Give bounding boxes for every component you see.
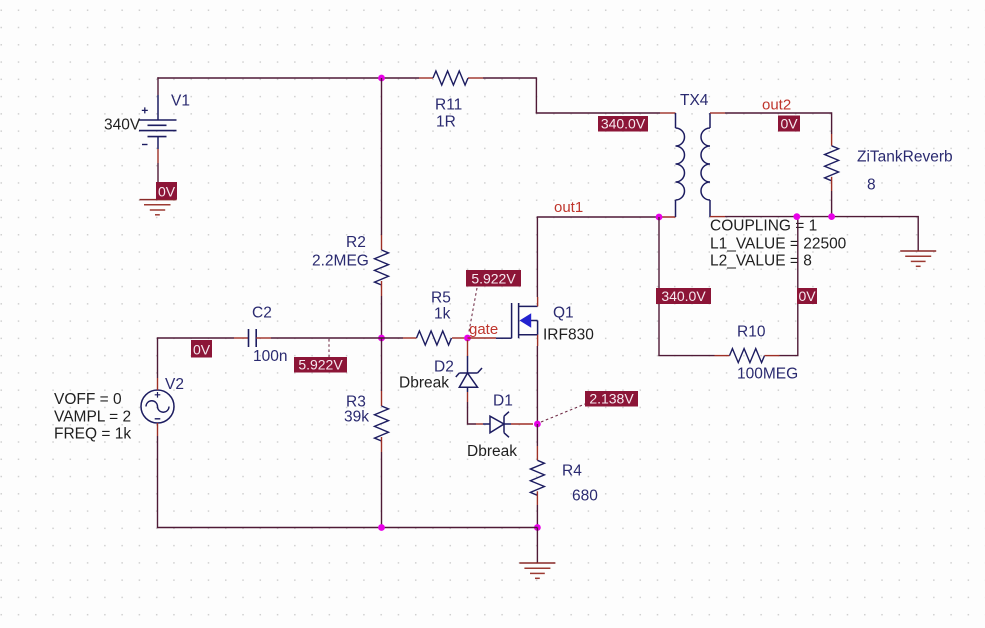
svg-text:0V: 0V: [798, 288, 816, 304]
pin stub Q1 source: [537, 335, 539, 346]
node gate junction: [464, 335, 471, 342]
node A junction (top, R2 top): [378, 75, 385, 82]
bias label 340.0V (R11/TX wire): [598, 116, 648, 132]
wire V2 bottom to bottom net: [157, 436, 159, 528]
dashed leader to 5.922V gate: [469, 288, 478, 334]
resistor R2: [375, 250, 389, 285]
pin stub R5 left: [403, 337, 417, 339]
svg-text:IRF830: IRF830: [543, 327, 594, 344]
pin stub D1 left: [476, 423, 483, 425]
wire V1 to ground: [157, 163, 159, 200]
pin stub TX4 primary top: [660, 112, 676, 114]
wire V2 top to corner: [157, 337, 159, 378]
node junction out1/TX: [656, 214, 663, 221]
wire C2 to mid node: [271, 337, 382, 339]
pin stub Q1 drain: [537, 297, 539, 306]
pin stub R11 right: [468, 77, 483, 79]
svg-text:2.2MEG: 2.2MEG: [312, 253, 369, 270]
svg-text:Dbreak: Dbreak: [467, 443, 517, 460]
wire R10 right up: [780, 217, 798, 356]
bias label 0V (V1 ground): [156, 182, 177, 200]
transistor Q1: [496, 303, 594, 344]
svg-text:D2: D2: [434, 359, 454, 376]
svg-text:Q1: Q1: [553, 305, 574, 322]
svg-text:1R: 1R: [436, 114, 456, 131]
svg-text:L2_VALUE = 8: L2_VALUE = 8: [710, 253, 812, 270]
pin stub V2 bottom: [157, 423, 159, 436]
diode D1: [467, 393, 517, 461]
voltage source V1 (battery): [104, 93, 190, 150]
pin stub R4 bottom: [536, 491, 538, 505]
pin stub R2 top: [381, 235, 383, 250]
svg-text:0V: 0V: [780, 116, 798, 132]
wire mid node down to R3: [381, 338, 383, 391]
wire out1 horizontal: [537, 216, 659, 218]
wire out2 horizontal: [725, 112, 832, 114]
transformer TX4: [676, 92, 711, 217]
svg-text:FREQ = 1k: FREQ = 1k: [54, 426, 131, 443]
pin stub R3 bottom: [381, 437, 383, 452]
node mid junction (C2/R2/R3/R5): [378, 335, 385, 342]
svg-text:340.0V: 340.0V: [601, 116, 646, 132]
pin stub R11 left: [419, 77, 433, 79]
pin stub RT bottom: [831, 177, 833, 191]
svg-text:100n: 100n: [253, 348, 287, 365]
pin stub R5 right: [452, 337, 468, 339]
resistor R3: [375, 406, 389, 441]
ground (R4): [519, 563, 555, 578]
wire top-left horizontal V1 to node: [157, 77, 381, 79]
wire mid node to R5: [382, 337, 404, 339]
voltage source V2 (sine): [141, 376, 184, 423]
svg-text:680: 680: [572, 488, 598, 505]
wire bottom net horizontal: [158, 527, 538, 529]
svg-text:L1_VALUE = 22500: L1_VALUE = 22500: [710, 236, 847, 253]
wire bottom-right net to ground: [725, 216, 918, 251]
wire Q1 drain up to out1: [536, 217, 538, 297]
node junction bottom (R4): [534, 524, 541, 531]
node junction (0V net / R10): [793, 213, 800, 220]
wire R2 top vertical: [381, 78, 383, 235]
bias label 340.0V (R10 left): [656, 288, 711, 304]
svg-text:0V: 0V: [193, 342, 211, 358]
wire corner down: [535, 77, 537, 113]
pin stub D1 right: [511, 423, 533, 425]
svg-text:39k: 39k: [344, 409, 369, 426]
wire R10 row left: [658, 355, 714, 357]
svg-text:D1: D1: [493, 393, 513, 410]
svg-text:2.138V: 2.138V: [589, 391, 634, 407]
wire R4 bottom to bottom net: [536, 505, 538, 528]
resistor ZiTankReverb: [825, 146, 839, 181]
resistor R10: [730, 349, 765, 363]
diode D2: [399, 356, 482, 392]
svg-text:340.0V: 340.0V: [661, 288, 706, 304]
svg-text:C2: C2: [252, 305, 272, 322]
dashed leader to 5.922V: [328, 339, 330, 357]
svg-text:V2: V2: [165, 376, 184, 393]
node junction bottom (R3): [378, 524, 385, 531]
wire to ground (R4): [536, 528, 538, 564]
svg-text:5.922V: 5.922V: [298, 357, 343, 373]
ground (TX secondary): [900, 251, 936, 266]
pin stub TX4 secondary bottom: [710, 216, 725, 218]
svg-text:COUPLING = 1: COUPLING = 1: [710, 218, 817, 235]
svg-text:R10: R10: [737, 324, 766, 341]
wire corner to C2: [158, 337, 235, 339]
pin stub RT top: [831, 134, 833, 146]
wire Q1 source down: [536, 346, 538, 424]
svg-text:VOFF = 0: VOFF = 0: [54, 391, 122, 408]
wire node to R11 left: [382, 77, 420, 79]
svg-text:out2: out2: [762, 97, 791, 114]
pin stub R2 bottom: [381, 281, 383, 296]
svg-text:100MEG: 100MEG: [737, 366, 798, 383]
wire out1 net down to R10: [658, 217, 660, 356]
pin stub C2 left: [234, 337, 248, 339]
bias label 0V (out2): [778, 116, 800, 132]
bias label 0V (V2 wire): [191, 340, 212, 358]
wire out2 corner down to RT: [831, 112, 833, 134]
pin stub TX4 secondary top: [710, 112, 725, 114]
bias label 2.138V: [585, 391, 638, 407]
wire R11 right to corner: [483, 77, 536, 79]
pin stub R3 top: [381, 391, 383, 406]
pin stub TX4 primary bottom: [659, 216, 676, 218]
wire R2 bottom to mid node: [381, 296, 383, 338]
svg-text:VAMPL = 2: VAMPL = 2: [54, 409, 131, 426]
pin stub R10 left: [715, 355, 730, 357]
svg-text:5.922V: 5.922V: [471, 271, 516, 287]
pin stub D2 bottom: [467, 392, 469, 402]
pin stub R10 right: [765, 355, 780, 357]
pin stub C2 right: [256, 337, 271, 339]
pin stub V1 bottom: [157, 149, 159, 163]
dashed leader to 2.138V: [541, 404, 585, 422]
resistor R5: [417, 331, 452, 345]
node junction D1/R4: [534, 421, 541, 428]
bias label 5.922V (gate): [466, 270, 521, 287]
resistor R11: [433, 71, 468, 85]
svg-text:R5: R5: [431, 290, 451, 307]
svg-text:340V: 340V: [104, 117, 141, 134]
pin stub D2 top: [467, 340, 469, 356]
resistor R4: [530, 460, 544, 495]
svg-text:out1: out1: [554, 199, 583, 216]
wire D2 to D1: [467, 402, 476, 424]
wire R3 bottom to bottom net: [381, 452, 383, 528]
svg-text:R11: R11: [435, 97, 462, 114]
capacitor C2: [249, 305, 288, 366]
pin stub Q1 gate: [468, 337, 497, 339]
pin stub R4 top: [536, 446, 538, 460]
bias label 5.922V (C2 node): [294, 357, 347, 373]
pin stub V2 top: [157, 378, 159, 390]
bias label 0V (R10 right): [797, 288, 817, 304]
wire RT bottom to bottom-right net: [831, 191, 833, 217]
wire junction to R4: [536, 424, 538, 446]
svg-text:Dbreak: Dbreak: [399, 375, 449, 392]
svg-text:R2: R2: [346, 234, 366, 251]
node junction (RT bottom): [828, 213, 835, 220]
wire V1 top vertical: [157, 77, 159, 95]
svg-text:ZiTankReverb: ZiTankReverb: [857, 149, 953, 166]
svg-text:TX4: TX4: [680, 92, 709, 109]
svg-text:0V: 0V: [158, 184, 176, 200]
svg-text:R4: R4: [562, 463, 582, 480]
svg-text:1k: 1k: [434, 306, 451, 323]
ground (V1): [140, 200, 177, 215]
svg-text:8: 8: [867, 177, 876, 194]
wire to TX4 primary top: [536, 112, 660, 114]
svg-text:gate: gate: [469, 321, 498, 338]
svg-text:V1: V1: [171, 93, 190, 110]
